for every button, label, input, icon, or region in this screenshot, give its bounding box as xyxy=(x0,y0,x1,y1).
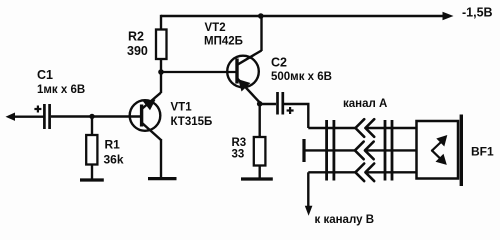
svg-text:VT1: VT1 xyxy=(171,102,193,114)
wire: VT1 collector vertical xyxy=(160,71,162,93)
input arrow (left) xyxy=(6,113,16,121)
wire: C2 to connector corner xyxy=(284,103,310,105)
wire: VT1 emitter vertical to ground xyxy=(160,139,162,178)
wire: middle contact line (left of chevron) xyxy=(304,149,355,151)
transistor VT2 emitter arrow (PNP, pointing to base) xyxy=(238,79,250,91)
wire: VT1 emitter diagonal xyxy=(142,123,161,140)
svg-text:C1: C1 xyxy=(37,68,53,82)
node: R2 / VT1 collector / VT2 base junction xyxy=(158,69,164,75)
svg-text:C2: C2 xyxy=(271,56,287,70)
node: rail / VT2 collector junction xyxy=(258,13,264,19)
capacitor C1 plus sign xyxy=(34,108,41,110)
wire: input arrow to C1 xyxy=(14,115,44,117)
wire: bottom contact line (left of chevron) xyxy=(308,171,355,173)
svg-text:33: 33 xyxy=(232,149,245,161)
wire: VT2 collector vertical to rail xyxy=(260,16,262,51)
wire: VT2 emitter diagonal xyxy=(237,78,260,102)
ground: R1 xyxy=(80,178,104,181)
svg-text:500мк x 6В: 500мк x 6В xyxy=(271,71,332,83)
wire: supply rail top xyxy=(161,15,444,17)
wire: VT2 collector diagonal xyxy=(237,51,261,65)
capacitor C1 plates xyxy=(43,104,46,129)
svg-text:BF1: BF1 xyxy=(471,145,494,159)
wire: bottom contact down to channel B xyxy=(307,172,309,207)
wire: C1 to VT1 base xyxy=(51,115,142,117)
svg-text:R2: R2 xyxy=(128,30,144,44)
wire: corner down to top contact xyxy=(307,104,309,128)
wire: top contact line (right of chevron) xyxy=(365,127,416,129)
wire: bottom contact line (right of chevron) xyxy=(365,171,416,173)
connector plate pair (left) xyxy=(325,120,328,181)
wire: middle contact line (right of chevron) xyxy=(365,149,417,151)
svg-text:390: 390 xyxy=(127,44,148,58)
BF1 right terminal bar xyxy=(460,115,463,187)
connector plate pair (right) xyxy=(384,120,387,181)
wire: R3 bottom to ground xyxy=(259,166,261,179)
BF1 internal arrows xyxy=(432,135,447,165)
transistor VT1 circle xyxy=(130,100,161,131)
svg-text:канал А: канал А xyxy=(343,98,387,110)
connector chevrons, bottom contact xyxy=(355,164,374,182)
svg-text:КТ315Б: КТ315Б xyxy=(171,116,213,128)
svg-text:R1: R1 xyxy=(105,138,121,152)
terminal T-bar of middle contact xyxy=(302,139,305,162)
resistor R2 xyxy=(156,30,167,60)
wire: top contact line (left of connector) xyxy=(308,127,355,129)
wire: VT1 collector diagonal xyxy=(142,93,161,109)
wire: R1 bottom to ground xyxy=(91,165,93,180)
ground: VT1 emitter xyxy=(148,177,177,180)
resistor R1 xyxy=(86,135,97,165)
resistor R3 xyxy=(254,137,266,166)
transistor VT1 base bar xyxy=(140,105,143,127)
svg-text:-1,5В: -1,5В xyxy=(462,6,493,20)
node: R1 junction xyxy=(89,114,94,119)
wire: R2 bottom to node xyxy=(160,59,162,73)
node: VT2 emitter / R3 / C2 junction xyxy=(257,101,263,107)
ground: R3 xyxy=(241,177,273,180)
wire: emitter node to C2 xyxy=(260,103,276,105)
svg-text:МП42Б: МП42Б xyxy=(204,36,243,48)
svg-text:1мк x 6В: 1мк x 6В xyxy=(37,84,85,96)
connector chevrons, middle contact xyxy=(355,142,374,160)
wire: rail corner down to R2 xyxy=(160,15,162,30)
svg-text:36k: 36k xyxy=(104,153,124,167)
capacitor C2 plates xyxy=(276,92,279,115)
capacitor C2 plus sign xyxy=(287,109,294,111)
headphone BF1 box xyxy=(417,121,459,179)
svg-text:к каналу В: к каналу В xyxy=(315,214,375,226)
arrow to channel B xyxy=(305,206,313,216)
transistor VT2 base bar xyxy=(235,59,238,84)
connector chevrons, top contact xyxy=(355,119,374,137)
svg-text:R3: R3 xyxy=(232,137,247,149)
svg-text:VT2: VT2 xyxy=(205,22,226,34)
wire: node to VT2 base xyxy=(161,71,237,73)
transistor VT2 circle xyxy=(227,56,259,88)
transistor Q VT1 arrow (on upper lead) xyxy=(143,100,156,111)
supply arrow -1.5V xyxy=(443,12,454,21)
wire: node down to R3 xyxy=(259,104,261,138)
wire: junction down to R1 xyxy=(91,116,93,135)
